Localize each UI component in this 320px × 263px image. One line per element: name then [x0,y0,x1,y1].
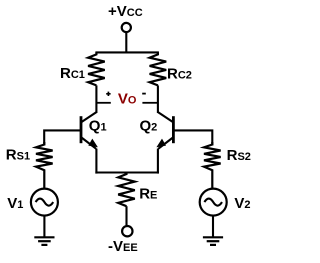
ground left [34,237,54,245]
wire minus tick [142,102,158,104]
transistor Q1 [81,112,98,149]
wire Q2 collector [157,85,159,113]
resistor RE [118,172,135,207]
resistor RS1 [36,142,53,188]
resistor RS2 [204,142,221,188]
ground right [203,237,223,245]
wire V1 to ground [43,216,45,237]
wire V2 to ground [212,216,214,237]
source V1 [31,189,58,216]
minus sign [142,93,146,95]
wire RE bottom [125,206,127,226]
wire RS2 top / Q2 base lead [173,130,212,145]
wire top rail [95,51,158,53]
transistor Q2 [156,112,173,149]
wire plus tick [97,102,111,104]
wire Q2 emitter [157,149,159,174]
resistor RC1 [88,52,105,85]
wire RS1 top / Q1 base lead [44,130,81,145]
VEE terminal circle [122,226,132,236]
VCC terminal circle [122,23,131,32]
resistor RC2 [150,52,167,85]
wire emitter bus [95,171,159,173]
wire Q1 collector [95,85,97,113]
wire Q1 emitter [95,149,97,174]
plus sign [106,92,110,96]
source V2 [200,189,227,216]
wire VCC stem [125,32,127,53]
